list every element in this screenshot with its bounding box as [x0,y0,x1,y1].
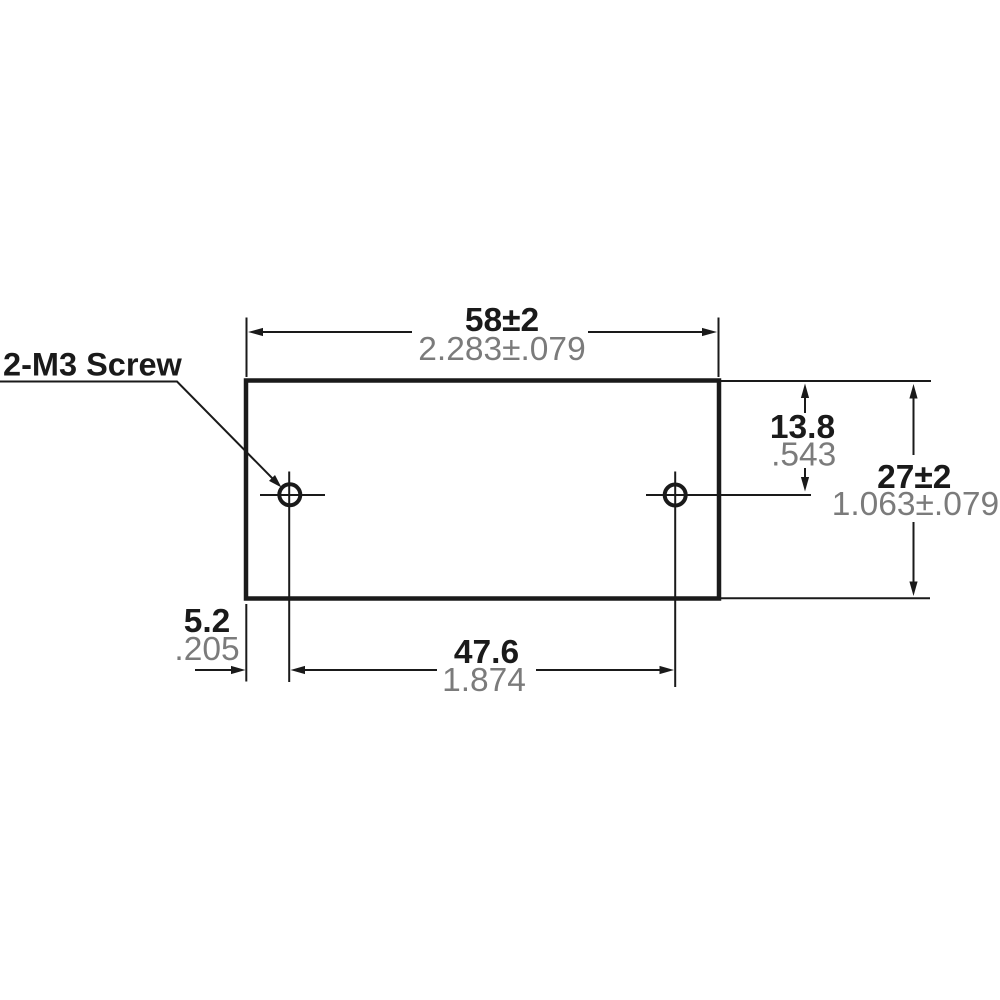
svg-text:1.874: 1.874 [442,662,526,699]
svg-text:2-M3 Screw: 2-M3 Screw [3,347,183,383]
svg-text:.543: .543 [771,437,836,474]
svg-text:.205: .205 [174,631,239,668]
svg-text:2.283±.079: 2.283±.079 [418,331,585,368]
svg-text:1.063±.079: 1.063±.079 [832,486,999,523]
